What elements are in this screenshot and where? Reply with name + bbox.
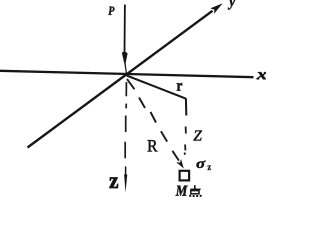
label Z	[193, 130, 202, 140]
R dashed line segment 2	[139, 98, 145, 109]
force P arrow tip line to origin	[125, 63, 126, 74]
z-axis arrowhead	[124, 174, 127, 192]
Z dashed line dot	[184, 153, 186, 155]
r line from origin	[127, 76, 186, 99]
label y	[228, 0, 235, 10]
label sigma subscript z	[208, 165, 212, 170]
y-axis	[28, 11, 213, 148]
point M square	[180, 171, 190, 181]
R dashed line segment 3	[151, 112, 157, 123]
label P	[108, 7, 114, 15]
R dashed line segment 1	[127, 79, 134, 89]
R arrowhead at M	[176, 159, 184, 169]
R dashed line segment 4	[161, 131, 167, 141]
x-axis	[0, 71, 254, 77]
label dian (Chinese char of M point)	[189, 185, 202, 197]
label sigma	[196, 161, 205, 168]
label M	[176, 186, 188, 196]
y-axis arrowhead	[210, 3, 222, 13]
force P arrowhead	[122, 51, 128, 66]
R dashed line final segment	[172, 151, 179, 161]
vertical solid segment below r bend	[185, 98, 187, 115]
z-axis dashed segment 3	[125, 116, 127, 133]
z-axis arrow shaft	[125, 167, 127, 177]
z-axis dashed segment 4	[124, 142, 126, 159]
force P arrow shaft	[124, 5, 126, 54]
label R	[148, 140, 158, 151]
Z dashed line segment 1	[185, 127, 187, 134]
label z bottom	[110, 178, 119, 188]
label x	[257, 72, 267, 79]
z-axis dashed segment 2	[125, 104, 127, 109]
Z dashed line segment 2	[184, 145, 186, 151]
label r	[177, 83, 182, 91]
z-axis dashed segment 1	[125, 82, 127, 96]
